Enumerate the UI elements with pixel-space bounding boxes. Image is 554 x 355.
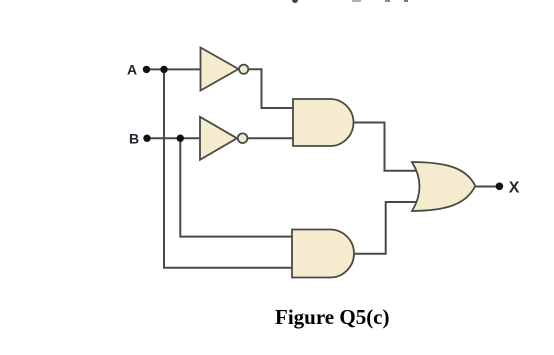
wire B input horizontal xyxy=(147,137,200,139)
AND gate U3 (top) xyxy=(293,99,354,146)
wire AND2 output to OR lower input xyxy=(354,202,417,254)
wire B vertical run down to lower AND xyxy=(180,138,292,236)
inverter U2 bubble xyxy=(238,133,248,143)
wire A input horizontal xyxy=(147,68,201,70)
wire AND1 output to OR upper input xyxy=(354,123,418,171)
OR gate U5 xyxy=(412,162,475,211)
svg-text:A: A xyxy=(127,61,137,77)
wire OR output xyxy=(476,186,497,188)
node B junction dot xyxy=(177,135,184,142)
svg-text:B: B xyxy=(129,130,139,146)
wire NOT1 output to AND1 upper input xyxy=(248,69,293,108)
wire A vertical run down to lower AND xyxy=(164,69,292,267)
clipped previous caption fragments at very top xyxy=(292,0,298,3)
node X terminal dot xyxy=(496,183,504,191)
caption Figure Q5(c) xyxy=(275,305,390,330)
inverter U2 triangle xyxy=(200,117,237,160)
inverter U1 triangle xyxy=(201,48,239,91)
node B terminal dot xyxy=(143,135,150,142)
svg-text:X: X xyxy=(509,180,520,197)
inverter U1 bubble xyxy=(239,65,248,74)
AND gate U4 (bottom) xyxy=(292,230,354,278)
node A terminal dot xyxy=(143,66,150,73)
node A junction dot xyxy=(160,66,167,73)
wire NOT2 output to AND1 lower input xyxy=(247,137,293,139)
